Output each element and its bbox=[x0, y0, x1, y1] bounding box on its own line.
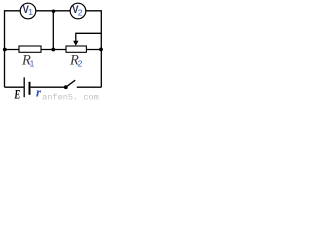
svg-text:2: 2 bbox=[78, 7, 83, 17]
svg-text:anfen5. com: anfen5. com bbox=[42, 92, 99, 100]
svg-text:1: 1 bbox=[28, 7, 33, 17]
svg-text:1: 1 bbox=[30, 59, 35, 69]
svg-text:2: 2 bbox=[78, 59, 83, 69]
svg-text:E: E bbox=[14, 87, 21, 100]
